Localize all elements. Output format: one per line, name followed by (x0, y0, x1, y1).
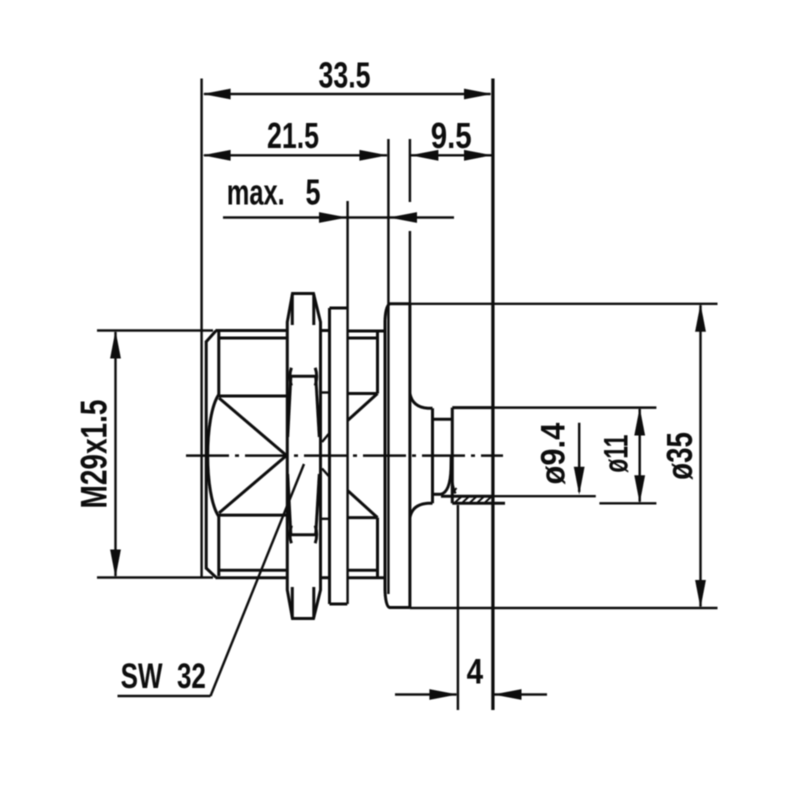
arrow 9.5 right (464, 150, 492, 161)
right cone horizontal bottom (348, 516, 378, 519)
right cone diagonal top (348, 394, 378, 421)
arrow 4 left (outside pointing right) (429, 689, 457, 700)
rear fillet bottom (410, 503, 433, 517)
o11 extension bottom (599, 502, 656, 504)
thread crest bottom (washer to flange) (348, 576, 385, 579)
solder hatch (453, 488, 492, 503)
hex nut chamfer edge left bottom (291, 587, 294, 618)
svg-text:9.5: 9.5 (431, 115, 472, 156)
crest segment between nut and washer bottom (322, 576, 330, 579)
tube inner line (o9.4) (441, 495, 493, 498)
dimension 9.5 line (411, 154, 492, 156)
svg-text:max.: max. (227, 172, 285, 213)
flange right face (408, 304, 411, 608)
bore horizontal bottom (219, 514, 287, 517)
hex nut SW32 outline (287, 294, 320, 619)
rear fillet top (410, 394, 433, 409)
insulator cone curve (441, 457, 451, 495)
crest segment between nut and washer top (322, 329, 330, 332)
arrow M29 top (110, 331, 121, 359)
extension line x=457.9 (4 left) (457, 505, 459, 710)
hex nut upper chamfer arc right (315, 368, 317, 386)
flange bottom-left chamfer (385, 591, 390, 608)
o11 dimension double arrow (638, 409, 640, 502)
hex nut chamfer edge left top (291, 295, 294, 326)
svg-text:ø35: ø35 (659, 432, 700, 480)
gap diagonal upper (322, 433, 330, 442)
svg-text:M29x1.5: M29x1.5 (73, 400, 115, 509)
gap diagonal lower (322, 469, 330, 478)
arrow 21.5 left (203, 150, 231, 161)
hex nut chamfer edge right top (312, 295, 315, 326)
flange bottom edge (389, 606, 410, 609)
gap bore line upper (322, 391, 330, 393)
tube left face (451, 408, 454, 504)
flange top edge (389, 302, 410, 305)
arrow max.5 left (outside, pointing right) (319, 212, 347, 223)
thread root top (219, 337, 287, 340)
thread chamfer bottom-left (206, 568, 217, 578)
hex nut upper chamfer arc left (290, 368, 292, 386)
dimension 4 line (395, 693, 547, 695)
thread chamfer top-left (206, 331, 217, 343)
svg-text:SW 32: SW 32 (121, 657, 206, 696)
hex nut chamfer edge right bottom (312, 587, 315, 618)
dimension 21.5 line (204, 154, 387, 156)
hex nut lower chamfer arc left (290, 526, 292, 544)
thread crest top (216, 329, 288, 332)
arrow 21.5 right (359, 150, 387, 161)
M29 extension bottom (97, 576, 213, 578)
SW32 underline (118, 695, 211, 697)
thread root bottom (washer to flange) (348, 569, 378, 572)
hex nut lower face edge left (288, 474, 291, 534)
arrow 4 right (outside pointing left) (494, 689, 522, 700)
right cone horizontal top (348, 392, 378, 395)
extension line x=388.4 (21.5 right / max.5 right) (387, 139, 389, 594)
SW32 leader line (211, 464, 305, 696)
tube bottom edge (452, 502, 505, 505)
o9.4 dimension line with arrow (578, 423, 580, 492)
svg-text:5: 5 (306, 172, 321, 213)
extension line x=492.9 (33.5 right / 9.5 right / 4 right) (491, 79, 494, 711)
cone diagonal top-left (219, 398, 287, 456)
M29 extension top (97, 329, 213, 331)
hex nut lower face edge right (316, 474, 320, 534)
bore arc (208, 395, 219, 517)
arrow M29 bottom (110, 550, 121, 578)
hex nut upper chamfer line (291, 375, 316, 378)
gap bore line lower (322, 518, 330, 520)
thread root bottom (219, 569, 287, 572)
svg-text:21.5: 21.5 (267, 115, 319, 156)
thread barrel left face (205, 342, 208, 568)
svg-text:ø11: ø11 (598, 435, 636, 473)
tube top edge (452, 406, 492, 409)
centerline (186, 454, 503, 456)
dimension 33.5 line (204, 93, 491, 95)
extension line x=409.9 up (9.5 left) (409, 139, 411, 304)
svg-text:ø9.4: ø9.4 (535, 423, 573, 485)
hex nut upper face edge left (288, 377, 291, 437)
arrow 9.5 left (410, 150, 438, 161)
washer (330, 308, 348, 604)
arrow 33.5 right (464, 89, 492, 100)
groove floor bottom (433, 493, 442, 496)
cone diagonal bottom-left (219, 456, 287, 514)
svg-text:4: 4 (467, 653, 484, 692)
arrow 33.5 left (203, 89, 231, 100)
svg-text:33.5: 33.5 (319, 55, 371, 96)
groove floor top (433, 418, 453, 421)
o11 extension top (493, 406, 657, 408)
thread crest top (washer to flange) (348, 330, 385, 333)
hex nut lower chamfer arc right (315, 526, 317, 544)
o9.4 extension (493, 495, 596, 497)
dimension max.5 line (223, 216, 454, 218)
flange top-left chamfer (385, 304, 390, 320)
o35 dimension double arrow (699, 305, 701, 606)
o35 extension top (410, 303, 718, 305)
extension line left x=201.6 (33.5 / 21.5) (200, 79, 202, 578)
insulator cone inner arc (451, 471, 456, 494)
dimension M29 line vertical (114, 332, 116, 576)
thread end vertical line (217, 332, 220, 576)
groove left wall (431, 408, 434, 503)
thread end boundary vertical right section (376, 331, 379, 578)
thread crest bottom (216, 576, 288, 579)
extension line x=347.6 (max.5 left / washer face) (346, 201, 348, 604)
right cone diagonal bottom (348, 491, 378, 518)
hex nut lower chamfer line (291, 533, 316, 536)
arrow max.5 right (outside, pointing left) (389, 212, 417, 223)
hex nut upper face edge right (316, 377, 320, 437)
flange left face (384, 320, 387, 591)
thread root top (washer to flange) (348, 337, 378, 340)
o35 extension bottom (410, 607, 718, 609)
bore horizontal top (219, 395, 287, 398)
